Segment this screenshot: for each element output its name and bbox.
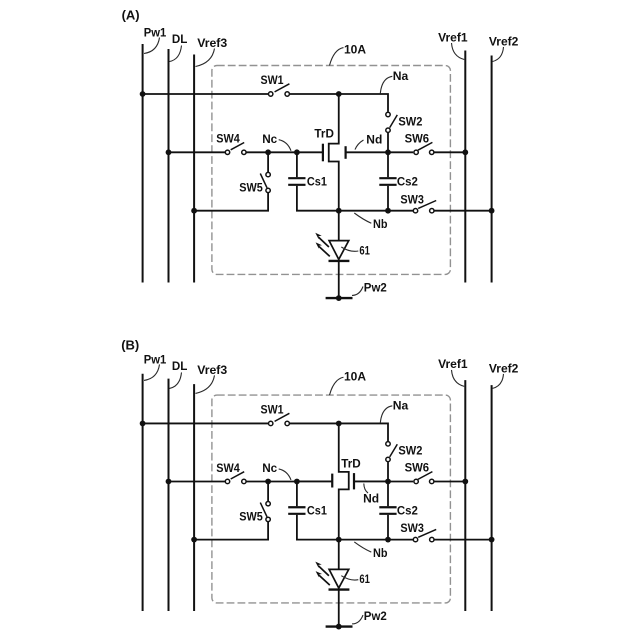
svg-text:Nd: Nd	[366, 132, 382, 146]
svg-text:Nd: Nd	[363, 492, 379, 506]
svg-text:(A): (A)	[122, 8, 140, 23]
svg-text:(B): (B)	[121, 337, 139, 352]
svg-text:TrD: TrD	[314, 127, 334, 141]
svg-text:TrD: TrD	[341, 457, 361, 471]
